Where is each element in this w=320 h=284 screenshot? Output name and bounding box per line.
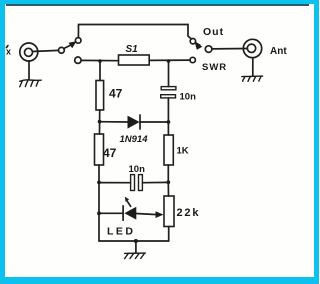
svg-text:1K: 1K (177, 146, 189, 157)
svg-text:1N914: 1N914 (120, 134, 149, 145)
svg-text:S1: S1 (126, 44, 139, 55)
svg-text:Ant: Ant (270, 46, 287, 57)
svg-text:LED: LED (107, 226, 136, 238)
svg-text:Out: Out (203, 26, 224, 38)
svg-text:47: 47 (103, 146, 117, 160)
svg-text:10n: 10n (180, 92, 197, 103)
svg-text:22k: 22k (177, 207, 201, 219)
svg-text:x: x (6, 47, 11, 57)
svg-text:47: 47 (109, 87, 123, 101)
svg-text:10n: 10n (129, 164, 146, 175)
svg-text:SWR: SWR (202, 62, 227, 73)
